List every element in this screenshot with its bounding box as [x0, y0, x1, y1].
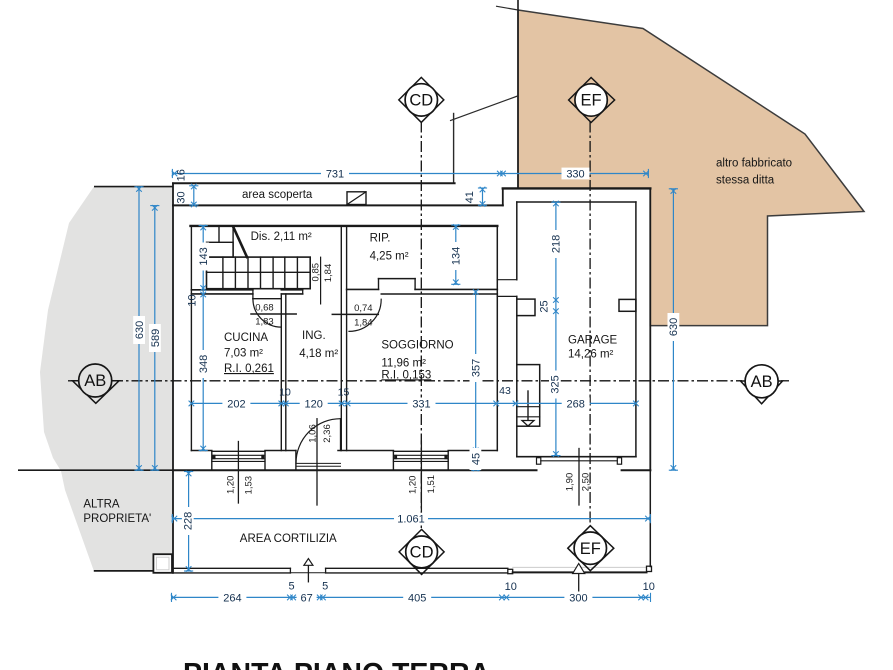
svg-text:357: 357 [470, 359, 482, 377]
svg-text:5: 5 [288, 580, 294, 592]
svg-text:348: 348 [198, 355, 210, 373]
svg-text:331: 331 [412, 398, 430, 410]
svg-text:AREA CORTILIZIA: AREA CORTILIZIA [240, 533, 337, 545]
svg-text:stessa ditta: stessa ditta [716, 175, 775, 187]
svg-text:218: 218 [551, 235, 563, 253]
svg-text:ALTRA: ALTRA [83, 499, 120, 511]
svg-text:0,85: 0,85 [310, 263, 321, 282]
svg-text:1.061: 1.061 [397, 513, 425, 525]
svg-text:4,18 m²: 4,18 m² [299, 348, 338, 360]
svg-text:14,26 m²: 14,26 m² [568, 348, 614, 360]
svg-text:11,96 m²: 11,96 m² [381, 357, 426, 369]
svg-text:67: 67 [300, 592, 312, 604]
svg-text:PROPRIETA': PROPRIETA' [83, 513, 151, 525]
svg-text:1,84: 1,84 [354, 317, 373, 328]
svg-text:7,03 m²: 7,03 m² [224, 347, 263, 359]
svg-text:ING.: ING. [302, 330, 326, 342]
svg-text:228: 228 [183, 512, 195, 530]
svg-text:45: 45 [470, 453, 482, 465]
svg-text:1,90: 1,90 [564, 473, 575, 492]
svg-text:SOGGIORNO: SOGGIORNO [381, 340, 453, 352]
svg-text:5: 5 [322, 580, 328, 592]
svg-text:EF: EF [581, 92, 602, 110]
svg-text:0,68: 0,68 [255, 303, 274, 314]
svg-text:AB: AB [751, 373, 773, 391]
svg-text:1,20: 1,20 [226, 476, 237, 495]
svg-text:589: 589 [150, 329, 162, 347]
svg-text:1,20: 1,20 [408, 476, 419, 495]
svg-text:4,25 m²: 4,25 m² [370, 250, 409, 262]
svg-text:41: 41 [464, 191, 476, 203]
svg-text:R.I. 0,261: R.I. 0,261 [224, 363, 274, 375]
svg-text:RIP.: RIP. [370, 233, 391, 245]
svg-text:43: 43 [499, 385, 511, 397]
svg-text:630: 630 [134, 321, 146, 339]
svg-text:405: 405 [408, 592, 426, 604]
svg-text:area scoperta: area scoperta [242, 189, 313, 201]
svg-text:0,74: 0,74 [354, 303, 373, 314]
svg-text:Dis. 2,11 m²: Dis. 2,11 m² [251, 231, 312, 243]
svg-text:630: 630 [668, 318, 680, 336]
svg-text:143: 143 [198, 247, 210, 265]
svg-text:2,36: 2,36 [322, 424, 333, 443]
svg-text:10: 10 [279, 387, 291, 399]
svg-text:EF: EF [580, 540, 601, 558]
svg-text:AB: AB [84, 372, 106, 390]
svg-text:330: 330 [566, 168, 584, 180]
svg-text:202: 202 [227, 398, 245, 410]
svg-text:1,06: 1,06 [308, 424, 319, 443]
svg-text:1,53: 1,53 [244, 476, 255, 495]
svg-text:15: 15 [338, 387, 350, 399]
svg-text:10: 10 [187, 294, 199, 306]
svg-text:264: 264 [223, 592, 241, 604]
svg-text:10: 10 [643, 581, 655, 593]
svg-text:CD: CD [410, 544, 434, 562]
svg-text:1,83: 1,83 [255, 317, 274, 328]
svg-text:altro fabbricato: altro fabbricato [716, 158, 792, 170]
svg-text:R.I. 0,153: R.I. 0,153 [381, 369, 431, 381]
svg-text:CUCINA: CUCINA [224, 332, 268, 344]
svg-text:CD: CD [409, 92, 433, 110]
svg-text:268: 268 [567, 398, 585, 410]
svg-text:120: 120 [305, 398, 323, 410]
svg-text:134: 134 [451, 247, 463, 265]
svg-text:16: 16 [175, 169, 187, 181]
svg-text:10: 10 [505, 581, 517, 593]
svg-text:PIANTA PIANO TERRA: PIANTA PIANO TERRA [183, 658, 490, 670]
svg-text:731: 731 [326, 168, 344, 180]
svg-text:2,50: 2,50 [581, 473, 592, 492]
svg-text:GARAGE: GARAGE [568, 334, 618, 346]
svg-text:25: 25 [538, 300, 550, 312]
svg-text:1,84: 1,84 [323, 264, 334, 283]
svg-text:1,51: 1,51 [426, 475, 437, 494]
svg-text:30: 30 [175, 191, 187, 203]
svg-text:300: 300 [569, 592, 587, 604]
svg-text:325: 325 [550, 375, 562, 393]
